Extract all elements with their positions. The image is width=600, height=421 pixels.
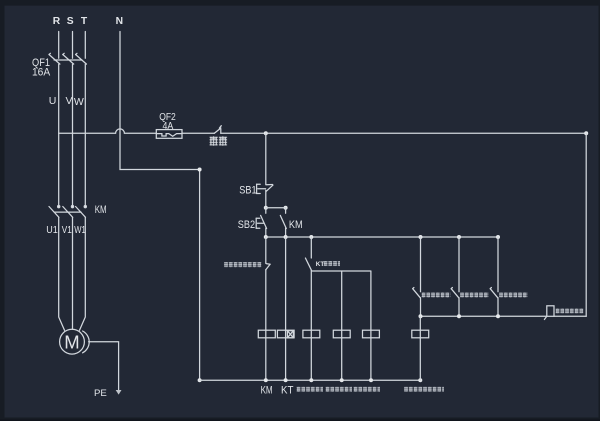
wire bus2 horizontal xyxy=(266,236,498,238)
pushbutton SB2 (NO) xyxy=(256,208,266,229)
wire right riser xyxy=(585,133,587,316)
motor M1 circle xyxy=(60,329,85,354)
wire limit1 to bus4 xyxy=(420,298,422,316)
svg-text:W1: W1 xyxy=(74,224,86,236)
svg-text:U: U xyxy=(49,95,57,107)
node A dot left xyxy=(264,206,268,210)
wire SB2 to bus2 xyxy=(265,228,267,237)
node A dot right xyxy=(284,206,288,210)
wire node A horizontal xyxy=(266,207,286,209)
motor M1 outer arc xyxy=(83,331,90,353)
limit switch 2 xyxy=(451,288,459,298)
svg-text:16A: 16A xyxy=(32,66,51,78)
svg-text:R: R xyxy=(53,16,61,27)
limit switch 3 label xyxy=(499,292,528,297)
wire control bus L1 with hop over N xyxy=(59,129,157,133)
wire phase T top xyxy=(84,32,86,59)
svg-text:KM: KM xyxy=(289,219,303,231)
coil3 label xyxy=(297,387,324,392)
svg-text:V1: V1 xyxy=(62,224,72,236)
wire W1 to motor xyxy=(80,218,86,331)
wire bus after fuse xyxy=(182,132,214,134)
wire bus3 bottom xyxy=(200,379,421,381)
node bus2 dots xyxy=(264,235,500,239)
svg-text:KM: KM xyxy=(261,385,273,397)
wire control vertical to SB1 xyxy=(265,133,267,184)
wire limit1 to coil6 xyxy=(419,316,421,380)
coil4 label xyxy=(326,387,353,392)
node bus3 dots xyxy=(264,378,423,382)
contact FR thermal NC xyxy=(266,264,270,270)
wire limit branch 2 vertical xyxy=(458,237,460,292)
wire V1 to motor xyxy=(72,218,74,330)
node junction bus/control xyxy=(264,131,268,135)
wire N vertical xyxy=(120,32,200,381)
wire KT contact branch xyxy=(311,270,371,380)
svg-text:N: N xyxy=(116,16,123,27)
svg-text:KT: KT xyxy=(281,385,294,397)
breaker QF1 xyxy=(49,53,87,64)
wire phase W xyxy=(84,64,86,206)
coil 3 (hoist up) xyxy=(303,330,320,338)
manual reset button box xyxy=(544,306,554,320)
fuse QF2 xyxy=(156,130,182,139)
wire limit branch 3 vertical xyxy=(497,237,499,292)
wire bus4 to right riser xyxy=(554,315,586,317)
svg-text:W: W xyxy=(74,96,84,108)
wire phase S top xyxy=(72,32,74,59)
contact KM auxiliary (NO, self hold) xyxy=(280,208,286,237)
wire bus2 to KT contact xyxy=(310,237,312,258)
wire U1 to motor xyxy=(59,218,65,331)
contact KT delayed close xyxy=(305,258,311,270)
coil 6 (solenoid) xyxy=(412,330,429,338)
svg-text:T: T xyxy=(81,16,88,27)
wire bus4 horizontal xyxy=(421,315,547,317)
wire phase U xyxy=(58,64,60,206)
ground PE symbol xyxy=(116,390,122,395)
wire phase R top xyxy=(58,32,60,59)
manual reset label xyxy=(556,309,585,314)
wire limit3 to bus4 xyxy=(497,298,499,316)
limit switch 1 xyxy=(413,288,421,298)
emergency stop switch xyxy=(214,126,221,134)
wire bus to right edge xyxy=(221,132,586,134)
emergency stop label xyxy=(210,136,228,146)
svg-text:SB1: SB1 xyxy=(239,184,256,196)
coil 4 (hoist down) xyxy=(333,330,350,338)
coil5 label xyxy=(354,387,381,392)
wire limit2 to bus4 xyxy=(458,298,460,316)
coil KT (time relay) xyxy=(277,330,294,338)
coil6 label xyxy=(404,387,444,392)
pushbutton SB1 (NC) xyxy=(257,184,273,193)
svg-text:U1: U1 xyxy=(46,224,58,236)
node bus4 dots xyxy=(419,314,501,318)
svg-text:SB2: SB2 xyxy=(238,219,255,231)
svg-text:KM: KM xyxy=(95,204,107,216)
wire motor to PE xyxy=(89,342,119,390)
limit switch 3 xyxy=(490,288,498,298)
svg-text:S: S xyxy=(67,16,74,27)
wire limit branch 1 vertical xyxy=(420,237,422,292)
svg-text:4A: 4A xyxy=(163,120,174,132)
svg-text:KT: KT xyxy=(316,261,325,268)
wire SB1 to node A xyxy=(265,190,267,207)
wire phase V xyxy=(72,64,74,206)
node junction right corner xyxy=(584,131,588,135)
wire FR to KM coil xyxy=(265,270,267,380)
contactor KM main contacts xyxy=(49,206,86,218)
coil 5 (hoist stop) xyxy=(363,330,380,338)
svg-text:V: V xyxy=(65,95,72,107)
wire bus2 to KT coil xyxy=(285,237,287,380)
wire bus2 to FR contact xyxy=(265,237,267,263)
FR label text xyxy=(224,262,262,268)
limit switch 2 label xyxy=(460,292,489,297)
svg-text:M: M xyxy=(64,331,79,352)
coil KM xyxy=(258,330,275,338)
svg-text:PE: PE xyxy=(94,388,107,399)
limit switch 1 label xyxy=(422,292,451,297)
